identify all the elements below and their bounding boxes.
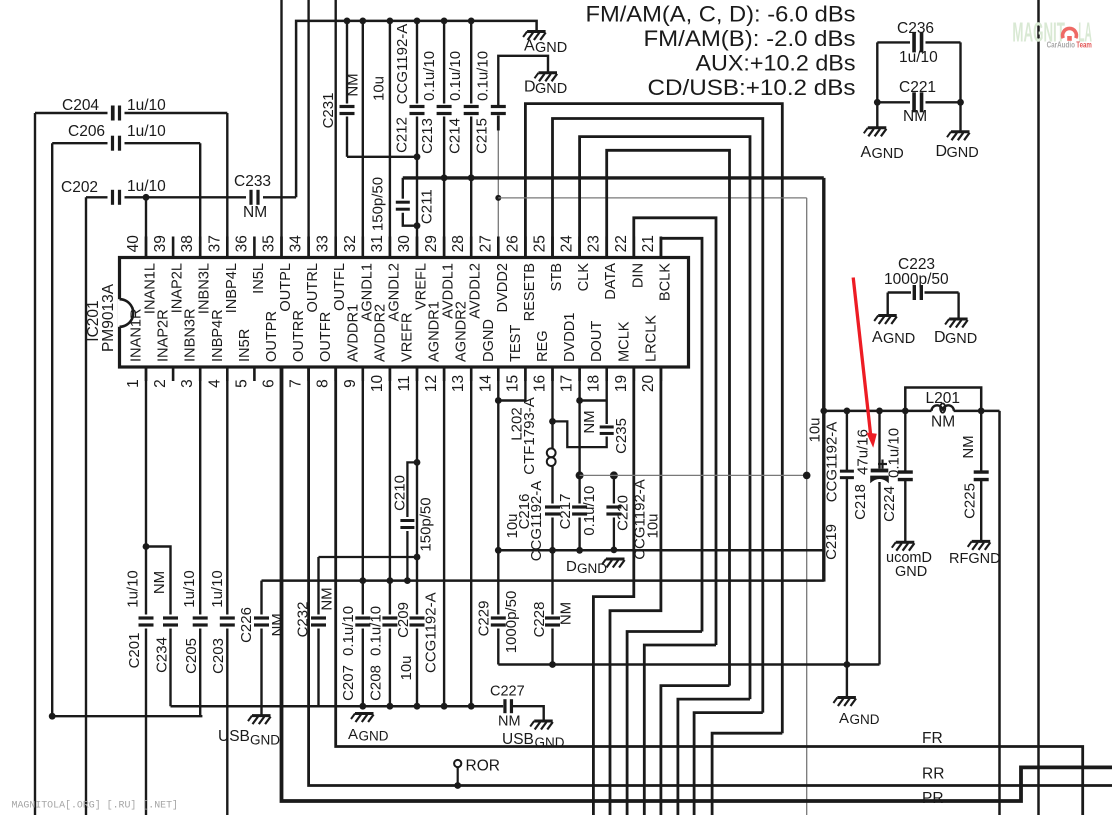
svg-text:7: 7: [288, 379, 305, 388]
svg-text:INAN1L: INAN1L: [143, 263, 159, 314]
svg-text:1u/10: 1u/10: [127, 123, 166, 140]
svg-text:0.1u/10: 0.1u/10: [886, 428, 903, 478]
svg-text:24: 24: [559, 235, 576, 253]
svg-text:C206: C206: [68, 123, 105, 140]
svg-text:PM9013A: PM9013A: [100, 283, 117, 352]
svg-text:NM: NM: [903, 108, 927, 125]
svg-text:11: 11: [396, 375, 413, 391]
svg-text:C232: C232: [294, 602, 311, 638]
svg-text:NM: NM: [931, 414, 955, 431]
svg-text:GND: GND: [850, 712, 880, 727]
svg-text:C214: C214: [447, 118, 464, 154]
svg-text:10: 10: [369, 375, 386, 393]
svg-text:C228: C228: [531, 602, 548, 638]
svg-text:9: 9: [342, 379, 359, 388]
svg-text:GND: GND: [872, 146, 904, 162]
svg-text:L201: L201: [926, 390, 960, 407]
svg-text:OUTFR: OUTFR: [318, 312, 334, 362]
svg-text:10u: 10u: [645, 513, 662, 538]
svg-text:D: D: [566, 558, 577, 575]
svg-text:MCLK: MCLK: [616, 321, 632, 362]
svg-text:C201: C201: [126, 633, 143, 669]
svg-text:GND: GND: [535, 40, 567, 56]
svg-text:DGND: DGND: [481, 319, 497, 362]
svg-text:39: 39: [152, 235, 169, 252]
svg-text:32: 32: [342, 235, 359, 252]
svg-text:2: 2: [152, 379, 169, 388]
svg-text:C205: C205: [183, 638, 200, 674]
svg-text:OUTRL: OUTRL: [305, 263, 321, 312]
svg-text:1u/10: 1u/10: [125, 570, 142, 608]
svg-text:33: 33: [315, 235, 332, 252]
svg-text:150p/50: 150p/50: [369, 177, 386, 231]
svg-text:1000p/50: 1000p/50: [884, 271, 949, 288]
svg-text:C208: C208: [368, 665, 385, 701]
svg-text:29: 29: [423, 235, 440, 252]
svg-text:C203: C203: [210, 638, 227, 674]
svg-text:BCLK: BCLK: [657, 263, 673, 301]
svg-text:C233: C233: [234, 173, 271, 190]
svg-text:C235: C235: [613, 418, 630, 454]
svg-text:CCG1192-A: CCG1192-A: [423, 592, 440, 673]
svg-text:CD/USB:+10.2 dBs: CD/USB:+10.2 dBs: [648, 75, 856, 100]
svg-text:0.1u/10: 0.1u/10: [581, 486, 598, 536]
svg-text:TEST: TEST: [508, 325, 524, 362]
svg-text:1u/10: 1u/10: [127, 97, 166, 114]
svg-text:16: 16: [532, 375, 549, 392]
svg-text:12: 12: [423, 375, 440, 392]
svg-text:AVDDR1: AVDDR1: [345, 304, 361, 362]
svg-text:21: 21: [640, 235, 657, 252]
svg-text:36: 36: [233, 235, 250, 252]
svg-text:22: 22: [613, 235, 630, 252]
svg-text:C204: C204: [62, 97, 99, 114]
svg-text:40: 40: [125, 235, 142, 253]
svg-text:D: D: [524, 79, 536, 96]
svg-text:150p/50: 150p/50: [418, 497, 435, 551]
svg-text:A: A: [524, 38, 535, 55]
svg-text:C221: C221: [899, 79, 936, 96]
svg-text:GND: GND: [250, 733, 280, 748]
svg-text:A: A: [839, 710, 849, 727]
svg-text:ROR: ROR: [466, 758, 500, 775]
svg-text:CarAudio: CarAudio: [1047, 40, 1075, 49]
svg-text:1u/10: 1u/10: [127, 178, 166, 195]
svg-text:10u: 10u: [807, 417, 824, 442]
svg-text:DATA: DATA: [603, 263, 619, 300]
svg-text:REG: REG: [535, 330, 551, 362]
svg-text:C217: C217: [557, 494, 574, 530]
svg-text:AUX:+10.2 dBs: AUX:+10.2 dBs: [696, 51, 856, 76]
svg-text:RFGND: RFGND: [949, 551, 1001, 567]
svg-text:PR: PR: [922, 790, 944, 807]
svg-text:AVDDL2: AVDDL2: [468, 263, 484, 319]
svg-text:34: 34: [288, 235, 305, 253]
svg-text:OUTPL: OUTPL: [278, 263, 294, 312]
svg-text:3: 3: [179, 379, 196, 388]
svg-text:37: 37: [206, 235, 223, 252]
svg-text:18: 18: [586, 375, 603, 392]
svg-text:INBN3L: INBN3L: [197, 263, 213, 314]
svg-text:GND: GND: [359, 729, 389, 744]
svg-text:C219: C219: [823, 524, 840, 560]
svg-text:CCG1192-A: CCG1192-A: [394, 24, 411, 105]
svg-text:GND: GND: [535, 81, 567, 97]
svg-text:INAP2R: INAP2R: [156, 309, 172, 362]
svg-text:C202: C202: [61, 179, 98, 196]
svg-text:RESETB: RESETB: [522, 263, 538, 321]
svg-text:AGNDR2: AGNDR2: [454, 301, 470, 362]
svg-text:1u/10: 1u/10: [181, 570, 198, 608]
svg-text:DOUT: DOUT: [589, 321, 605, 362]
svg-text:C225: C225: [962, 483, 979, 519]
svg-text:C224: C224: [881, 486, 898, 522]
svg-text:30: 30: [396, 235, 413, 253]
svg-text:OUTPR: OUTPR: [264, 311, 280, 362]
svg-text:4: 4: [206, 379, 223, 388]
svg-text:C229: C229: [476, 601, 493, 637]
svg-text:NM: NM: [243, 204, 267, 221]
svg-text:1000p/50: 1000p/50: [503, 591, 520, 654]
svg-text:C210: C210: [392, 475, 409, 511]
svg-text:35: 35: [261, 235, 278, 252]
svg-text:INAN1R: INAN1R: [129, 308, 145, 362]
svg-text:FM/AM(B): -2.0 dBs: FM/AM(B): -2.0 dBs: [644, 26, 856, 51]
svg-text:C218: C218: [852, 484, 869, 520]
svg-text:A: A: [861, 144, 872, 161]
svg-text:A: A: [348, 726, 358, 743]
svg-text:DVDD1: DVDD1: [562, 313, 578, 362]
svg-text:27: 27: [477, 235, 494, 252]
svg-text:D: D: [934, 329, 946, 346]
svg-text:20: 20: [640, 375, 657, 393]
svg-text:19: 19: [613, 375, 630, 392]
svg-text:38: 38: [179, 235, 196, 252]
svg-text:26: 26: [504, 235, 521, 252]
svg-text:23: 23: [586, 235, 603, 252]
svg-text:0.1u/10: 0.1u/10: [368, 606, 385, 656]
svg-text:6: 6: [261, 379, 278, 388]
svg-text:NM: NM: [581, 410, 598, 433]
svg-text:10u: 10u: [371, 76, 388, 101]
svg-text:FM/AM(A, C, D): -6.0 dBs: FM/AM(A, C, D): -6.0 dBs: [586, 1, 856, 26]
svg-text:VREFR: VREFR: [400, 313, 416, 362]
svg-text:CTF1793-A: CTF1793-A: [521, 397, 538, 475]
svg-text:STB: STB: [549, 263, 565, 291]
svg-text:FR: FR: [922, 730, 943, 747]
svg-text:17: 17: [559, 375, 576, 392]
svg-text:15: 15: [504, 375, 521, 392]
svg-text:GND: GND: [577, 561, 607, 576]
svg-text:GND: GND: [945, 331, 977, 347]
svg-text:MAGNITOLA[.ORG] [.RU] [.NET]: MAGNITOLA[.ORG] [.RU] [.NET]: [12, 800, 179, 812]
svg-text:NM: NM: [558, 602, 575, 625]
svg-text:10u: 10u: [398, 655, 415, 680]
svg-text:C220: C220: [615, 495, 632, 531]
svg-text:NM: NM: [498, 714, 521, 730]
svg-text:RR: RR: [922, 766, 944, 783]
svg-text:CLK: CLK: [576, 263, 592, 292]
svg-text:CCG1192-A: CCG1192-A: [824, 422, 841, 503]
svg-text:5: 5: [233, 379, 250, 388]
svg-text:1u/10: 1u/10: [209, 570, 226, 608]
svg-text:28: 28: [450, 235, 467, 252]
svg-text:31: 31: [369, 235, 386, 252]
svg-text:OUTFL: OUTFL: [332, 263, 348, 311]
svg-text:DVDD2: DVDD2: [495, 263, 511, 312]
svg-text:INBP4R: INBP4R: [210, 309, 226, 362]
svg-text:C226: C226: [238, 607, 255, 643]
svg-text:D: D: [936, 143, 948, 160]
svg-text:NM: NM: [345, 73, 362, 96]
svg-text:Team: Team: [1076, 40, 1092, 49]
svg-text:NM: NM: [319, 587, 336, 610]
svg-text:8: 8: [315, 379, 332, 388]
svg-text:OUTRR: OUTRR: [291, 310, 307, 362]
svg-text:INBP4L: INBP4L: [224, 263, 240, 313]
svg-text:0.1u/10: 0.1u/10: [475, 51, 492, 101]
svg-text:C215: C215: [474, 118, 491, 154]
svg-text:0.1u/10: 0.1u/10: [340, 606, 357, 656]
svg-text:NM: NM: [960, 435, 977, 458]
svg-text:C211: C211: [419, 189, 436, 224]
svg-text:INBN3R: INBN3R: [183, 308, 199, 362]
svg-text:GND: GND: [895, 564, 927, 580]
svg-text:C209: C209: [395, 602, 412, 638]
svg-text:C213: C213: [419, 118, 436, 154]
svg-text:14: 14: [477, 375, 494, 393]
svg-text:AVDDR2: AVDDR2: [372, 304, 388, 362]
svg-text:C231: C231: [320, 93, 337, 129]
svg-text:GND: GND: [883, 331, 915, 347]
svg-text:DIN: DIN: [630, 263, 646, 288]
svg-text:C207: C207: [340, 665, 357, 701]
svg-text:IN5L: IN5L: [251, 263, 267, 294]
svg-text:25: 25: [532, 235, 549, 252]
svg-text:AGNDR1: AGNDR1: [427, 301, 443, 362]
svg-text:1u/10: 1u/10: [899, 49, 938, 66]
svg-text:0.1u/10: 0.1u/10: [421, 51, 438, 101]
svg-text:USB: USB: [218, 728, 250, 745]
svg-text:13: 13: [450, 375, 467, 392]
svg-text:C212: C212: [394, 117, 411, 153]
svg-text:INAP2L: INAP2L: [170, 263, 186, 313]
svg-text:A: A: [872, 329, 883, 346]
svg-text:GND: GND: [947, 145, 979, 161]
svg-text:C234: C234: [153, 637, 170, 673]
svg-text:1: 1: [125, 379, 142, 388]
svg-text:NM: NM: [269, 613, 286, 636]
svg-text:CCG1192-A: CCG1192-A: [528, 481, 545, 562]
svg-text:NM: NM: [151, 571, 168, 594]
svg-text:IN5R: IN5R: [237, 329, 253, 362]
svg-text:C227: C227: [490, 684, 525, 700]
svg-text:LRCLK: LRCLK: [643, 315, 659, 362]
svg-text:0.1u/10: 0.1u/10: [447, 51, 464, 101]
